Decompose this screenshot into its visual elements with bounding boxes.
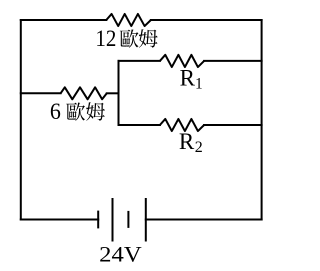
wire left vertical rail: [20, 20, 22, 220]
wire bottom side, right of battery: [146, 219, 262, 221]
battery 24V: short plate (left): [97, 211, 99, 229]
resistor R1 (zigzag): [160, 55, 204, 67]
wire R1 branch, right lead: [204, 60, 262, 62]
wire top side, right of 12-ohm resistor: [151, 19, 262, 21]
battery 24V: long plate (left cell): [112, 198, 114, 242]
wire from 6-ohm resistor to parallel-branch node: [107, 92, 119, 94]
value label glyph ou (6 ohm): [66, 102, 85, 120]
resistor R2 (zigzag): [160, 119, 204, 131]
resistor 6 ohm (zigzag): [61, 87, 107, 99]
value label glyph ou (12 ohm): [120, 29, 139, 47]
svg-text:24V: 24V: [99, 241, 142, 266]
wire bottom side, left of battery: [21, 219, 98, 221]
svg-text:R1: R1: [180, 66, 203, 93]
value label glyph mu (6 ohm): [86, 102, 105, 121]
wire top side, left of 12-ohm resistor: [21, 19, 107, 21]
svg-text:R2: R2: [179, 129, 203, 156]
wire parallel-branch left vertical (node between R1 and R2): [118, 61, 120, 125]
battery 24V: long plate (right cell): [145, 198, 147, 242]
wire R2 branch, left lead: [119, 124, 160, 126]
wire right vertical rail: [261, 20, 263, 220]
svg-text:12: 12: [95, 26, 116, 52]
battery 24V: short plate (middle): [127, 211, 129, 228]
wire R1 branch, left lead: [119, 60, 160, 62]
value label glyph mu (12 ohm): [139, 29, 158, 48]
svg-text:6: 6: [50, 99, 61, 125]
wire R2 branch, right lead: [204, 124, 262, 126]
resistor 12 ohm (zigzag): [106, 14, 151, 26]
wire middle branch from left rail to 6-ohm resistor: [21, 92, 61, 94]
